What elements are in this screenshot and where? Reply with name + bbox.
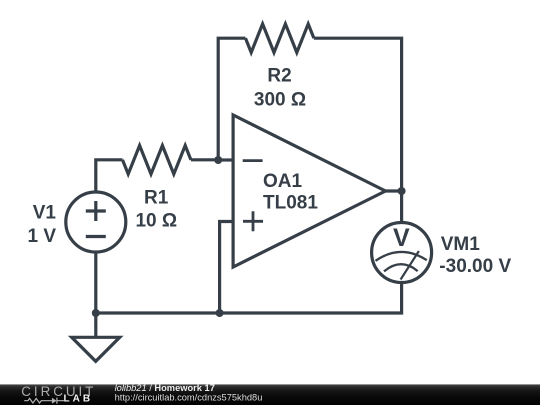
wire feedback left vertical and top-left segment: [218, 38, 245, 160]
wire R1 to inverting input node: [191, 158, 218, 161]
resistor R1: [123, 146, 191, 175]
wire inverting input stub: [218, 158, 233, 161]
voltmeter needle: [401, 251, 419, 280]
V1 minus sign: [86, 235, 106, 238]
voltage source V1 circle: [66, 192, 126, 252]
op-amp OA1 triangle: [233, 115, 385, 267]
svg-text:LAB: LAB: [64, 394, 94, 405]
wire from V1 top to R1: [96, 160, 123, 192]
node junction dot output: [398, 187, 406, 195]
svg-text:http://circuitlab.com/cdnzs575: http://circuitlab.com/cdnzs575khd8u: [115, 393, 263, 403]
wire V1 bottom to ground node: [94, 252, 97, 313]
voltmeter VM1 circle: [372, 223, 432, 283]
svg-text:V: V: [393, 224, 410, 252]
svg-text:VM1: VM1: [441, 234, 481, 255]
wire top-right segment and right vertical down to output node: [314, 38, 402, 191]
voltmeter scale lower arc: [384, 264, 418, 271]
svg-text:lolibb21 / Homework 17: lolibb21 / Homework 17: [115, 383, 215, 393]
voltmeter scale upper arc: [376, 252, 427, 261]
footer bar: [0, 384, 540, 405]
svg-text:OA1: OA1: [263, 171, 303, 192]
node junction dot ground rail left: [92, 309, 100, 317]
svg-text:R1: R1: [144, 187, 169, 208]
svg-text:10 Ω: 10 Ω: [135, 211, 177, 232]
resistor R2: [246, 24, 314, 53]
svg-text:TL081: TL081: [263, 193, 318, 214]
svg-text:-30.00 V: -30.00 V: [439, 256, 511, 277]
CircuitLab logo resistor-diode squiggle: [24, 398, 64, 404]
svg-text:V1: V1: [33, 203, 57, 224]
ground symbol: [72, 337, 120, 361]
node junction dot bottom rail middle: [216, 309, 224, 317]
node junction dot inverting input: [214, 156, 222, 164]
op-amp minus symbol: [243, 159, 263, 162]
svg-text:300 Ω: 300 Ω: [254, 89, 306, 110]
V1 plus sign: [86, 201, 106, 221]
svg-text:R2: R2: [267, 65, 291, 86]
wire voltmeter bottom to bottom rail: [96, 283, 402, 314]
wire op-amp output to node: [386, 189, 402, 192]
wire ground stem: [94, 313, 97, 337]
wire non-inverting input stub and vertical down to bottom rail: [220, 222, 234, 314]
op-amp plus symbol: [243, 211, 263, 231]
wire output node down to voltmeter top: [400, 191, 403, 223]
svg-text:1 V: 1 V: [27, 226, 56, 247]
